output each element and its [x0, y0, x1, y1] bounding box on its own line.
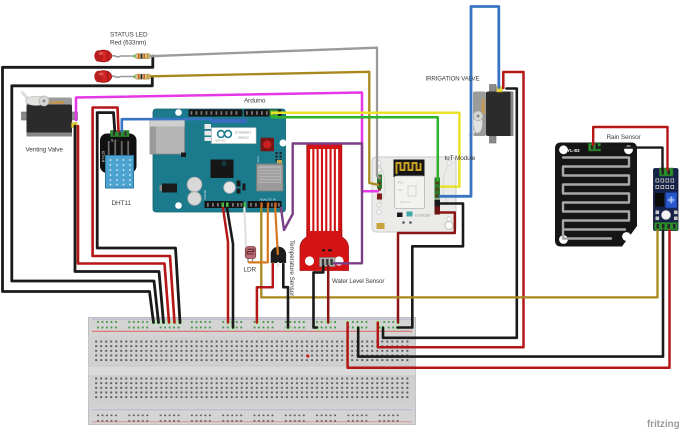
- svg-text:KY-015: KY-015: [102, 151, 106, 162]
- svg-text:Red (633nm): Red (633nm): [110, 40, 146, 47]
- svg-text:micro: micro: [256, 155, 260, 163]
- svg-text:ETHERNET: ETHERNET: [235, 131, 251, 135]
- svg-text:IoT Module: IoT Module: [445, 155, 476, 162]
- svg-text:TOWER: TOWER: [481, 98, 486, 114]
- svg-text:TOWER: TOWER: [48, 100, 65, 105]
- svg-text:ARDUINO: ARDUINO: [215, 140, 226, 143]
- svg-text:ANALOG IN: ANALOG IN: [260, 198, 276, 202]
- svg-text:Venting Valve: Venting Valve: [26, 147, 64, 154]
- svg-text:Temperature Sensor: Temperature Sensor: [288, 240, 295, 297]
- svg-text:DHT11: DHT11: [112, 200, 132, 207]
- svg-text:SHIELD: SHIELD: [238, 136, 250, 140]
- svg-text:STATUS LED: STATUS LED: [110, 32, 148, 39]
- svg-text:LDR: LDR: [244, 267, 257, 274]
- svg-text:ESP-12: ESP-12: [400, 200, 411, 204]
- svg-text:Arduino: Arduino: [244, 98, 266, 105]
- svg-text:ESP8266: ESP8266: [415, 214, 430, 218]
- svg-text:FC: FC: [398, 180, 403, 185]
- svg-text:POWER: POWER: [203, 190, 207, 200]
- svg-text:Rain Sensor: Rain Sensor: [607, 134, 642, 141]
- svg-text:CE: CE: [398, 188, 402, 192]
- svg-text:IRRIGATION VALVE: IRRIGATION VALVE: [426, 76, 480, 83]
- svg-text:Water Level Sensor: Water Level Sensor: [332, 278, 384, 285]
- svg-text:fritzing: fritzing: [647, 419, 680, 430]
- svg-text:YL-83: YL-83: [567, 148, 580, 153]
